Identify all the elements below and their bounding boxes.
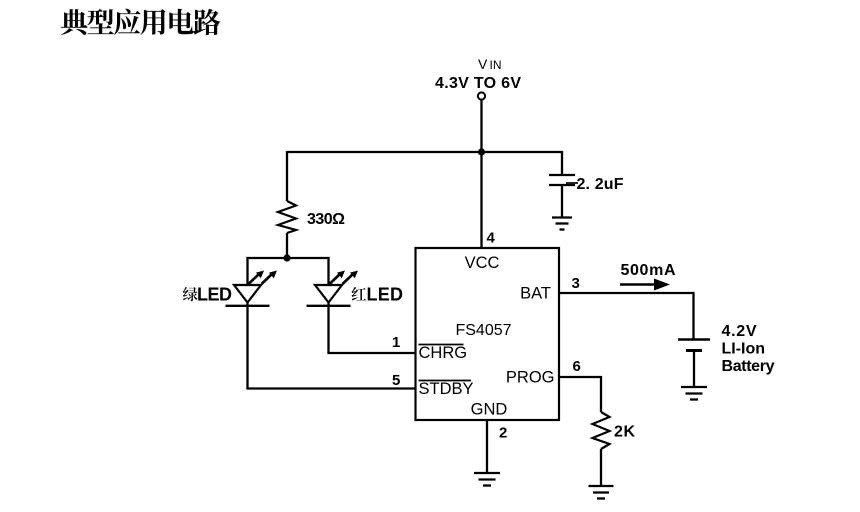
current direction arrow	[620, 279, 670, 291]
LED D1 green	[226, 285, 270, 306]
svg-text:Battery: Battery	[722, 358, 775, 375]
svg-text:BAT: BAT	[520, 285, 551, 303]
capacitor C1 2.2uF	[549, 175, 578, 185]
label green LED	[183, 285, 232, 305]
wire down to battery BT1	[692, 292, 694, 340]
battery BT1	[678, 340, 710, 351]
LED D1 emission arrows	[249, 271, 278, 285]
svg-text:LED: LED	[367, 285, 404, 305]
wire VIN terminal down to VCC pin 4	[480, 100, 482, 248]
svg-text:IN: IN	[490, 58, 502, 72]
svg-text:4.3V TO 6V: 4.3V TO 6V	[435, 75, 521, 92]
wire D2 cathode down	[327, 302, 329, 353]
title 典型应用电路	[61, 9, 221, 35]
resistor R1 330 ohm	[278, 201, 296, 233]
svg-text:STDBY: STDBY	[419, 380, 474, 398]
svg-text:GND: GND	[471, 401, 508, 419]
svg-text:LED: LED	[197, 285, 232, 305]
svg-text:2: 2	[499, 425, 507, 442]
svg-text:FS4057: FS4057	[455, 322, 511, 339]
svg-text:500mA: 500mA	[621, 262, 676, 279]
op-amp U1 FS4057 charger IC body	[416, 248, 560, 420]
junction LED rail	[283, 254, 290, 261]
svg-text:1: 1	[392, 334, 400, 351]
svg-text:V: V	[478, 56, 488, 72]
ground under R2	[589, 486, 614, 499]
VIN input terminal	[478, 92, 485, 99]
LED D2 emission arrows	[330, 271, 359, 285]
svg-text:PROG: PROG	[506, 369, 555, 387]
ground under pin 2	[474, 473, 500, 486]
wire PROG pin 6 to resistor R2	[559, 377, 601, 412]
pin name CHRG with overline	[419, 344, 468, 362]
svg-text:4.2V: 4.2V	[722, 323, 757, 340]
ground under battery	[681, 387, 707, 400]
wire top rail	[287, 151, 562, 153]
svg-text:3: 3	[572, 275, 580, 292]
svg-text:2. 2uF: 2. 2uF	[577, 176, 624, 193]
wire R1 to LED rail	[286, 233, 288, 258]
wire C1 to ground	[561, 185, 563, 218]
pin name STDBY with overline	[419, 380, 474, 398]
wire D1 to STDBY pin 5	[246, 387, 416, 389]
wire battery to ground	[693, 351, 695, 388]
svg-text:5: 5	[392, 372, 400, 389]
wire D1 cathode down	[246, 302, 248, 389]
resistor R2 2K	[593, 412, 610, 449]
svg-text:6: 6	[573, 358, 581, 375]
svg-text:VCC: VCC	[465, 254, 500, 272]
battery label 4.2V LI-Ion Battery	[722, 323, 775, 375]
wire D2 to CHRG pin 1	[327, 352, 416, 354]
wire rail down to green LED D1	[246, 257, 248, 285]
wire rail down to resistor R1	[286, 151, 288, 201]
svg-text:CHRG: CHRG	[419, 344, 468, 362]
wire R2 to ground	[600, 449, 602, 486]
svg-text:330Ω: 330Ω	[307, 211, 345, 228]
label red LED	[352, 285, 403, 305]
ground under C1	[552, 218, 572, 230]
wire LED rail	[248, 257, 329, 259]
svg-text:2K: 2K	[614, 424, 635, 441]
svg-text:LI-Ion: LI-Ion	[722, 341, 766, 358]
wire rail down to red LED D2	[327, 257, 329, 285]
node VIN label	[478, 56, 502, 72]
wire GND pin 2 down	[486, 420, 488, 473]
wire BAT pin 3 to battery	[559, 292, 694, 294]
svg-text:4: 4	[487, 230, 496, 247]
LED D2 red	[307, 285, 351, 306]
wire rail to capacitor C1	[561, 151, 563, 175]
junction at VIN rail	[478, 148, 485, 155]
